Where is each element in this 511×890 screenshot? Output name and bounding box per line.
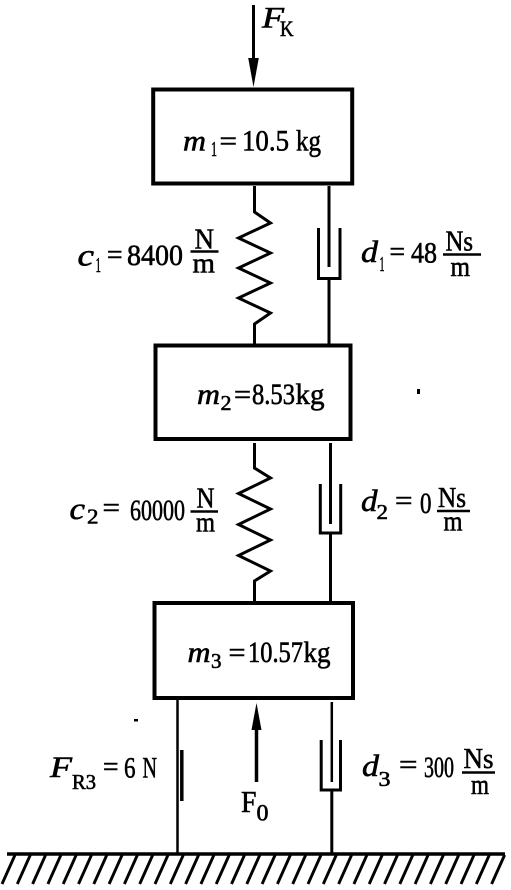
svg-text:=: = bbox=[103, 493, 121, 524]
friction pad F_R3 bbox=[180, 750, 184, 801]
force arrow F_K bbox=[248, 5, 259, 87]
label F_R3 value bbox=[49, 751, 157, 794]
svg-text:m: m bbox=[197, 378, 220, 411]
svg-text:m: m bbox=[196, 507, 215, 539]
svg-text:R3: R3 bbox=[72, 770, 96, 794]
mass m3 bbox=[155, 603, 354, 698]
svg-text:m: m bbox=[183, 125, 206, 158]
svg-text:d: d bbox=[362, 748, 380, 783]
spring c1 bbox=[239, 186, 271, 344]
svg-text:=: = bbox=[229, 638, 246, 669]
svg-text:d: d bbox=[361, 483, 378, 518]
svg-text:2: 2 bbox=[377, 500, 389, 524]
label m1 value bbox=[183, 125, 321, 162]
svg-text:2: 2 bbox=[87, 505, 99, 529]
svg-text:c: c bbox=[78, 238, 95, 273]
damper d1 bbox=[319, 186, 341, 344]
svg-text:300: 300 bbox=[424, 751, 454, 784]
svg-text:1: 1 bbox=[380, 252, 385, 276]
label d2 value bbox=[361, 482, 470, 538]
svg-text:m: m bbox=[188, 636, 211, 669]
svg-text:3: 3 bbox=[211, 649, 222, 673]
speck artifact bbox=[417, 389, 420, 394]
friction element wire bbox=[176, 700, 179, 853]
svg-text:m: m bbox=[444, 506, 463, 538]
svg-text:=: = bbox=[390, 237, 406, 268]
damper d2 bbox=[320, 443, 340, 601]
label F_K bbox=[261, 2, 294, 42]
svg-text:kg: kg bbox=[296, 125, 321, 158]
svg-text:=: = bbox=[399, 750, 418, 781]
svg-text:d: d bbox=[361, 234, 379, 269]
spring c2 bbox=[239, 443, 271, 601]
svg-text:kg: kg bbox=[296, 378, 325, 411]
svg-text:=: = bbox=[103, 752, 119, 783]
svg-text:c: c bbox=[70, 491, 86, 526]
label c2 value bbox=[70, 483, 219, 539]
svg-text:48: 48 bbox=[411, 237, 437, 270]
svg-text:10.57: 10.57 bbox=[248, 636, 303, 669]
svg-text:m: m bbox=[193, 248, 216, 280]
damper d3 bbox=[321, 702, 340, 853]
force arrow F0 bbox=[252, 703, 262, 782]
svg-text:kg: kg bbox=[304, 636, 331, 669]
mass m2 bbox=[156, 346, 351, 440]
svg-text:=: = bbox=[220, 127, 238, 158]
label d1 value bbox=[361, 226, 481, 284]
svg-text:60000: 60000 bbox=[130, 494, 185, 527]
svg-text:10.5: 10.5 bbox=[242, 125, 289, 158]
label F0 bbox=[241, 784, 269, 826]
svg-text:m: m bbox=[451, 251, 471, 283]
svg-text:1: 1 bbox=[211, 137, 217, 161]
svg-text:0: 0 bbox=[420, 487, 432, 520]
svg-text:8.53: 8.53 bbox=[252, 378, 295, 411]
svg-text:m: m bbox=[471, 769, 489, 801]
svg-text:K: K bbox=[280, 16, 294, 41]
label d3 value bbox=[362, 743, 495, 801]
svg-text:1: 1 bbox=[96, 253, 102, 277]
svg-text:2: 2 bbox=[221, 391, 232, 415]
svg-text:8400: 8400 bbox=[127, 239, 183, 272]
svg-text:N: N bbox=[143, 752, 158, 785]
svg-text:0: 0 bbox=[257, 801, 269, 826]
svg-text:=: = bbox=[107, 240, 123, 271]
svg-text:F: F bbox=[241, 784, 257, 819]
svg-text:=: = bbox=[395, 486, 413, 517]
svg-text:3: 3 bbox=[379, 767, 391, 791]
svg-text:6: 6 bbox=[124, 752, 136, 785]
ground bbox=[7, 852, 505, 856]
speck artifact 2 bbox=[134, 719, 138, 722]
svg-text:=: = bbox=[234, 380, 251, 411]
mass m1 bbox=[153, 90, 352, 184]
label m3 value bbox=[188, 636, 331, 673]
ground hatching bbox=[2, 855, 505, 884]
label c1 value bbox=[78, 224, 219, 280]
svg-text:F: F bbox=[49, 751, 73, 784]
label m2 value bbox=[197, 378, 325, 415]
